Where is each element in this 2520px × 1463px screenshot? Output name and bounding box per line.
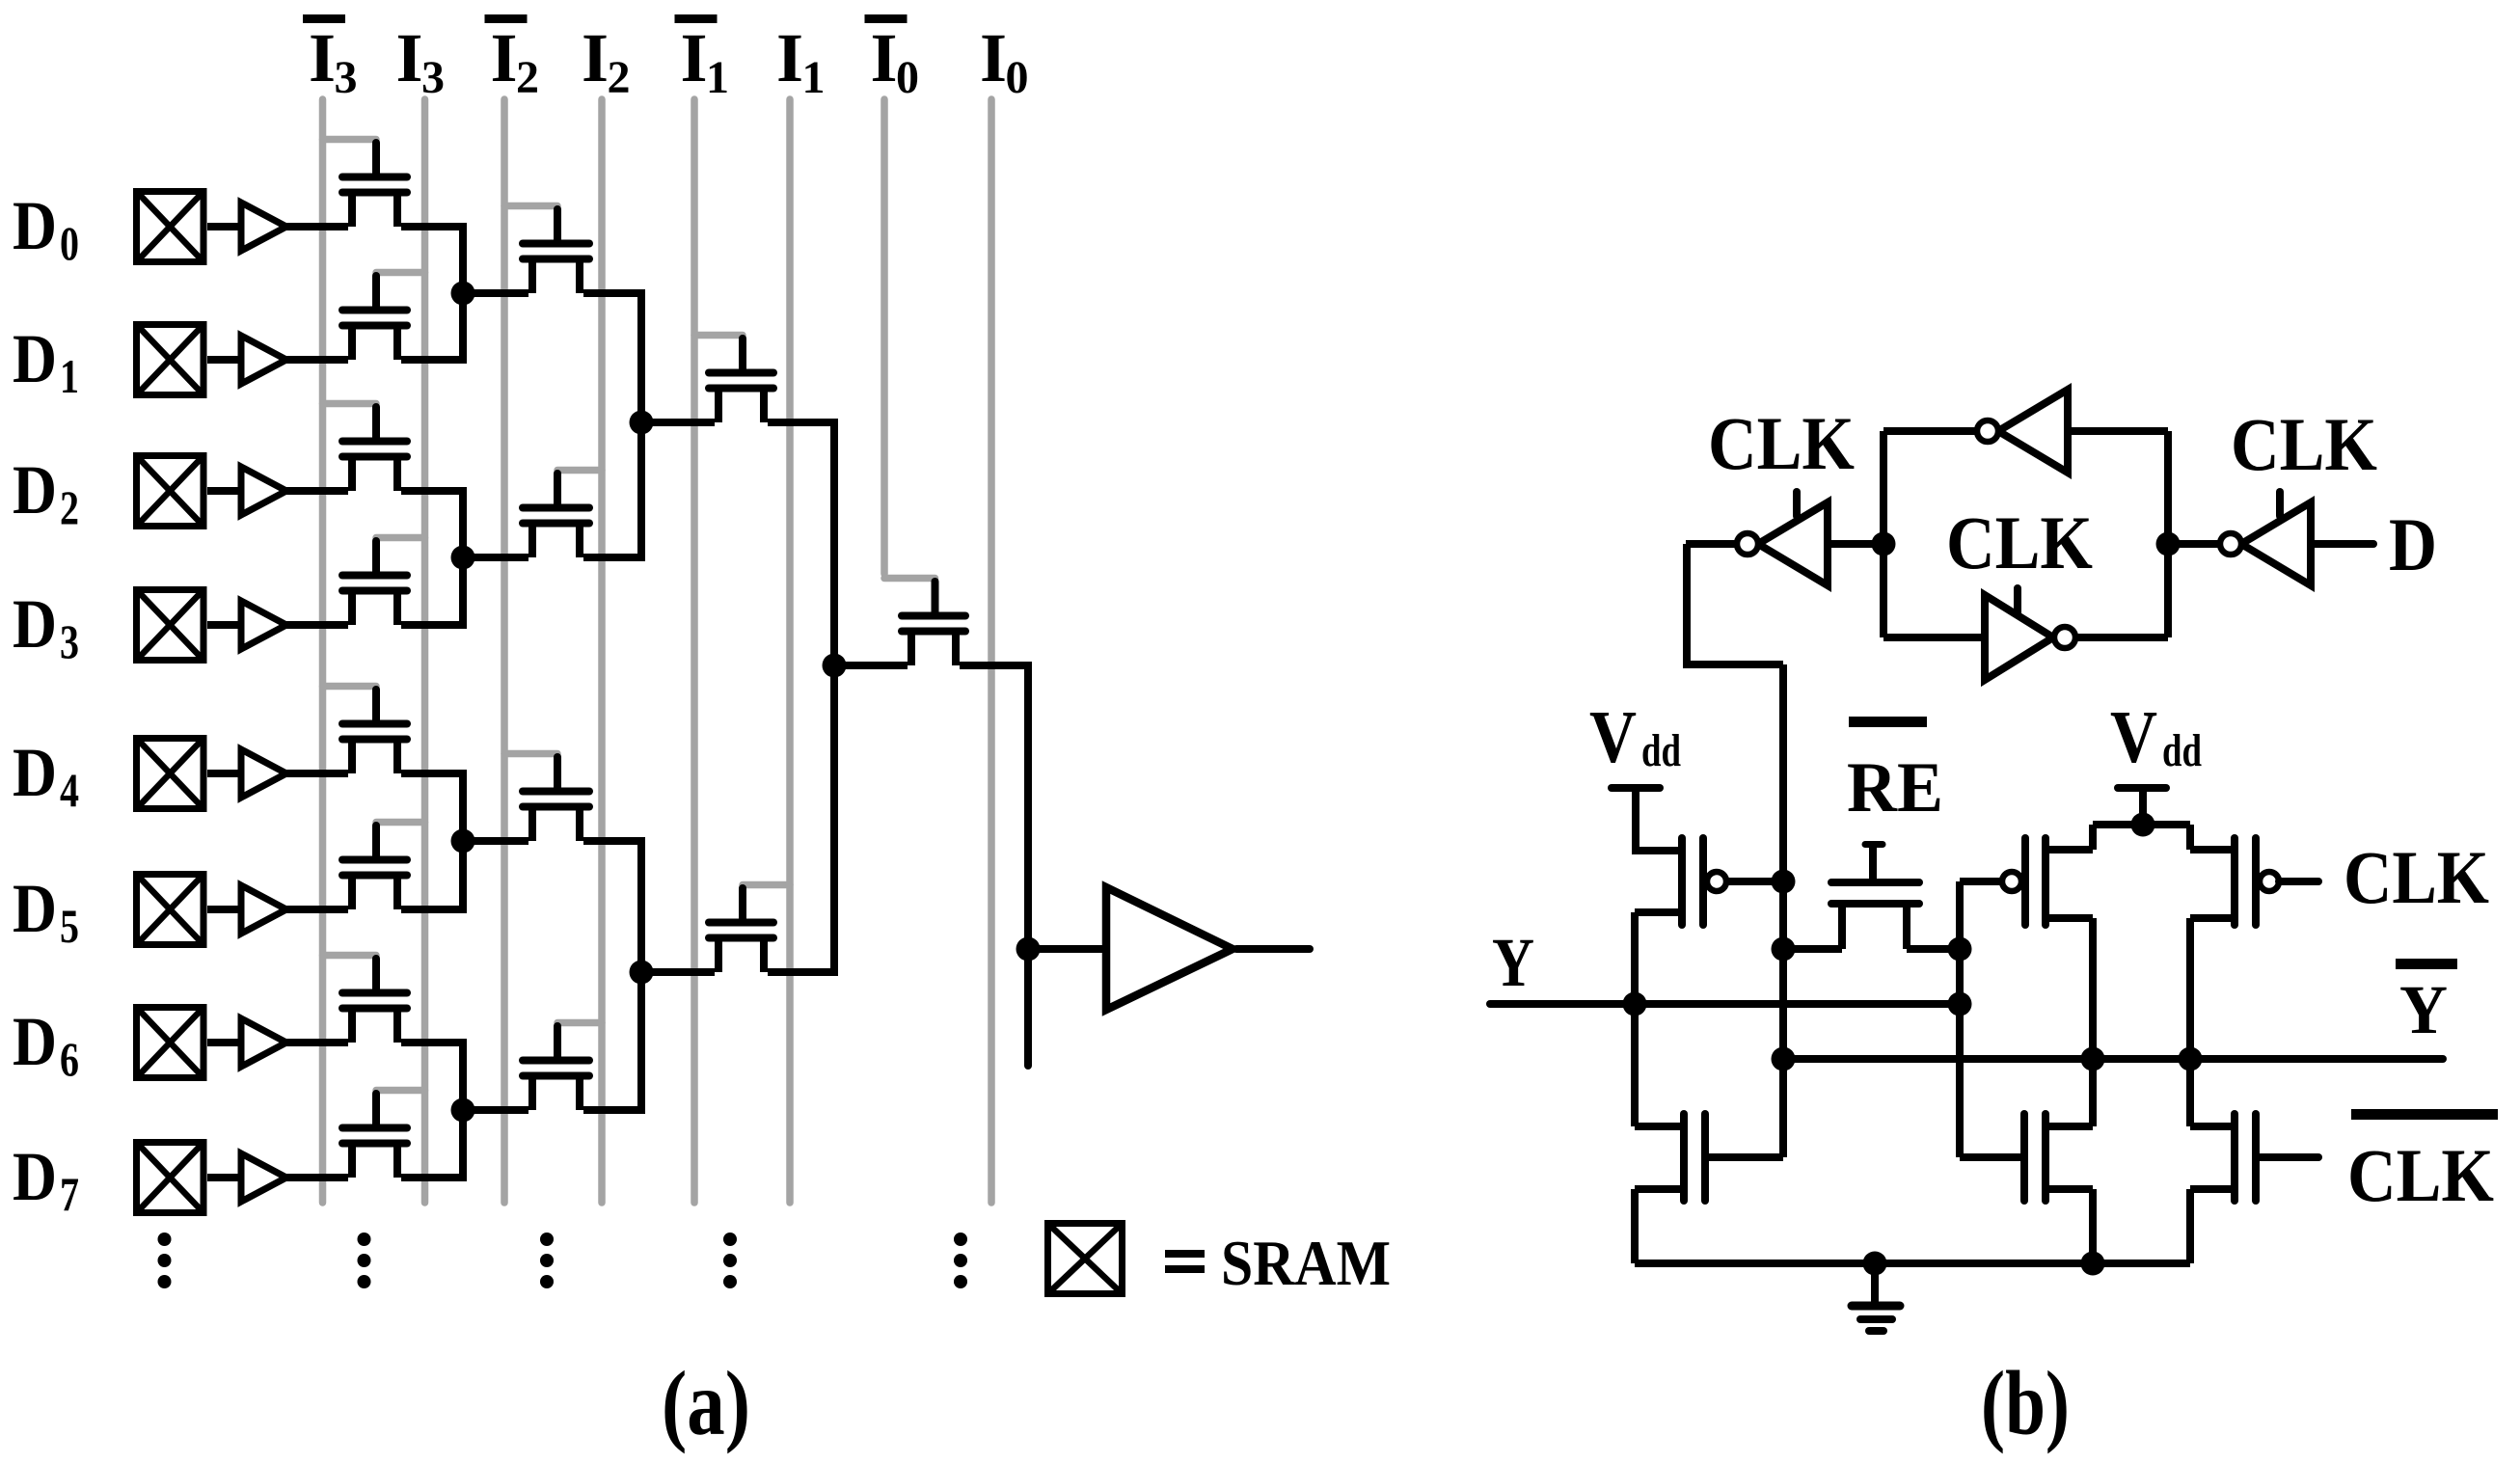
wire node B vertical	[1956, 881, 1964, 1157]
select line I3	[421, 99, 429, 1203]
wire loop bottom right	[2075, 634, 2168, 641]
select line I2_bar	[501, 99, 508, 1203]
ellipsis dots under level-1 column	[358, 1233, 371, 1288]
svg-text:D: D	[13, 320, 57, 397]
wire D5 buffer to transistor	[285, 906, 348, 913]
wire D0 drain	[401, 223, 467, 230]
buffer D4	[241, 749, 286, 798]
wire D3 buffer to transistor	[285, 621, 348, 629]
node A to RE junction	[1772, 937, 1796, 962]
ellipsis dots under level-3 column	[723, 1233, 737, 1288]
wire U3 output corner down	[1683, 544, 1691, 664]
wire L3 lower to final node	[830, 665, 838, 972]
wire pair1 node to L2 transistor	[463, 554, 528, 561]
wire D0 to pair node	[459, 227, 467, 293]
pass transistor Q30 (upper half, gate I1_bar)	[694, 336, 773, 423]
pass transistor Q22 (pair D4/D5, gate I2_bar)	[504, 754, 589, 842]
wire U3 input to node L	[1829, 540, 1883, 548]
node final junction	[823, 654, 847, 678]
pass transistor M2 (gate RE_bar)	[1831, 845, 1919, 950]
wire L2 pair2 to quad node	[637, 841, 645, 972]
label D0	[13, 187, 79, 270]
pass transistor Q20 (pair D0/D1, gate I2_bar)	[504, 206, 589, 294]
wire net Ybar	[1783, 1055, 2443, 1063]
wire M5 drain to Ybar	[2186, 918, 2194, 1059]
wire M7 source to rail	[2186, 1189, 2194, 1263]
wire Y to M3 source	[1631, 1004, 1639, 1126]
wire node L vertical	[1880, 431, 1887, 637]
svg-text:Y: Y	[1492, 924, 1534, 1001]
wire D4 cell to buffer	[207, 770, 241, 777]
wire loop bottom left	[1883, 634, 1985, 641]
wire tri-state output	[1686, 540, 1737, 548]
node A to M1 gate junction	[1772, 870, 1796, 894]
svg-text:4: 4	[60, 763, 79, 817]
wire loop top left	[1883, 427, 1977, 435]
label D6	[13, 1003, 79, 1086]
node pair0 junction	[451, 282, 475, 306]
wire M2 to node B	[1907, 945, 1960, 953]
pass transistor Q23 (pair D6/D7, gate I2)	[523, 1023, 602, 1111]
tri-state inverter U3 (CLK)	[1737, 492, 1828, 585]
wire node B to M4 gate bubble	[1960, 878, 2002, 885]
wire M3 drain to ground rail	[1631, 1189, 1639, 1263]
pass transistor Q14 (row D4, gate I3_bar)	[323, 687, 408, 774]
wire Vdd split	[2093, 821, 2190, 828]
wire pair3 node to L2 transistor	[463, 1106, 528, 1114]
svg-text:dd: dd	[2162, 725, 2202, 776]
label D5	[13, 870, 79, 953]
node Ybar-M5 junction	[2179, 1047, 2203, 1071]
wire net Y	[1490, 1000, 1960, 1008]
buffer D7	[241, 1153, 286, 1202]
svg-text:I: I	[396, 19, 423, 96]
wire final node to L4 transistor	[834, 662, 908, 669]
node Vdd split junction	[2131, 813, 2155, 837]
label I3_bar	[303, 14, 358, 103]
SRAM cell D2	[137, 456, 204, 527]
buffer D6	[241, 1018, 286, 1067]
node rail-M6 junction	[2081, 1252, 2105, 1276]
buffer D1	[241, 336, 286, 384]
wire node R to U4 bubble	[2168, 540, 2220, 548]
SRAM cell D6	[137, 1008, 204, 1078]
wire L2 pair1 to quad node	[637, 422, 645, 557]
label Vdd left	[1589, 695, 1681, 778]
svg-text:D: D	[13, 870, 57, 947]
wire L4 drain	[960, 662, 1032, 669]
svg-text:D: D	[13, 451, 57, 528]
wire Vdd to M4 source	[2089, 825, 2097, 850]
wire L2 pair0 to quad node	[637, 293, 645, 422]
wire D4 to pair node	[459, 773, 467, 841]
output buffer	[1106, 887, 1233, 1010]
node Ybar-M4 junction	[2081, 1047, 2105, 1071]
svg-text:I: I	[491, 19, 518, 96]
wire Vdd to M5 source	[2186, 825, 2194, 850]
svg-text:D: D	[13, 187, 57, 264]
node M1 drain on Y junction	[1623, 992, 1647, 1016]
ground	[1852, 1263, 1900, 1331]
node A to Ybar junction	[1772, 1047, 1796, 1071]
SRAM cell D0	[137, 192, 204, 262]
svg-text:D: D	[13, 1003, 57, 1080]
SRAM cell D7	[137, 1143, 204, 1213]
svg-text:3: 3	[421, 52, 445, 103]
wire U4 to D	[2315, 540, 2373, 548]
pass transistor Q17 (row D7, gate I3)	[342, 1091, 425, 1179]
Vdd terminal right	[2118, 788, 2166, 825]
pass transistor Q12 (row D2, gate I3_bar)	[323, 404, 408, 492]
pass transistor Q40 (output stage, gate I0_bar)	[884, 579, 965, 666]
svg-text:2: 2	[608, 52, 631, 103]
wire M1 drain to Y	[1631, 912, 1639, 1004]
NMOS M6 (gate node B)	[2024, 1114, 2093, 1201]
wire D1 drain	[401, 356, 467, 364]
buffer D5	[241, 885, 286, 934]
wire D5 cell to buffer	[207, 906, 241, 913]
PMOS M4 (gate node B)	[2002, 838, 2093, 925]
label RE_bar	[1847, 717, 1943, 827]
label D1	[13, 320, 79, 403]
svg-text:CLK: CLK	[2344, 835, 2489, 919]
node pair2 junction	[451, 829, 475, 853]
ellipsis dots under SRAM column	[158, 1233, 172, 1288]
svg-text:D: D	[2389, 502, 2437, 586]
wire D0 cell to buffer	[207, 223, 241, 230]
wire quad0 node to L3 transistor	[641, 419, 715, 426]
wire L2 pair2 drain	[583, 837, 645, 845]
svg-text:CLK: CLK	[2347, 1133, 2494, 1217]
svg-text:2: 2	[60, 480, 79, 534]
svg-text:I: I	[871, 19, 898, 96]
wire D6 cell to buffer	[207, 1039, 241, 1046]
buffer D0	[241, 203, 286, 251]
wire D1 buffer to transistor	[285, 356, 348, 364]
node R junction	[2156, 532, 2181, 556]
svg-text:3: 3	[60, 614, 79, 668]
legend SRAM symbol box	[1048, 1224, 1123, 1294]
wire output node to buffer	[1028, 945, 1106, 953]
label I1	[776, 19, 826, 103]
wire D3 to pair node	[459, 557, 467, 625]
pass transistor Q15 (row D5, gate I3)	[342, 823, 425, 910]
svg-text:CLK: CLK	[1946, 501, 2093, 584]
label D2	[13, 451, 79, 534]
inverter U1 feedback top	[1977, 390, 2068, 473]
inverter U2 feedback bottom (clocked)	[1985, 588, 2075, 680]
svg-text:7: 7	[60, 1167, 79, 1221]
svg-text:RE: RE	[1847, 748, 1943, 827]
wire Ybar to M7 drain	[2186, 1059, 2194, 1126]
SRAM cell D4	[137, 739, 204, 809]
svg-text:D: D	[13, 1138, 57, 1215]
wire D5 to pair node	[459, 841, 467, 909]
wire node R vertical	[2164, 431, 2172, 637]
wire L3 upper drain	[768, 419, 838, 426]
wire node B to M6 gate	[1960, 1153, 2020, 1161]
svg-text:I: I	[582, 19, 609, 96]
wire L2 pair3 to quad node	[637, 972, 645, 1110]
wire pair0 node to L2 transistor	[463, 289, 528, 297]
wire D0 buffer to transistor	[285, 223, 348, 230]
svg-text:0: 0	[1006, 52, 1029, 103]
PMOS M5 (gate CLK)	[2190, 838, 2318, 925]
svg-text:Y: Y	[2399, 971, 2448, 1048]
wire pair2 node to L2 transistor	[463, 837, 528, 845]
wire D6 drain	[401, 1039, 467, 1046]
ellipsis dots under level-2 column	[540, 1233, 554, 1288]
label I3	[396, 19, 446, 103]
svg-text:6: 6	[60, 1032, 79, 1086]
NMOS M7 (gate CLK_bar)	[2190, 1114, 2318, 1201]
wire L3 lower drain	[768, 968, 838, 976]
wire D2 buffer to transistor	[285, 487, 348, 495]
wire D7 cell to buffer	[207, 1174, 241, 1181]
node pair1 junction	[451, 546, 475, 570]
Vdd terminal left	[1612, 788, 1660, 854]
buffer D2	[241, 467, 286, 515]
svg-text:0: 0	[60, 216, 79, 270]
label I2	[582, 19, 631, 103]
label I1_bar	[675, 14, 730, 103]
wire quad1 node to L3 transistor	[641, 968, 715, 976]
wire L2 pair0 drain	[583, 289, 645, 297]
wire D7 drain	[401, 1174, 467, 1181]
svg-text:0: 0	[896, 52, 919, 103]
svg-text:V: V	[2110, 695, 2157, 778]
svg-text:D: D	[13, 734, 57, 811]
label D3	[13, 585, 79, 668]
select line I1	[786, 99, 794, 1203]
node B on Y junction	[1948, 992, 1972, 1016]
svg-text:I: I	[681, 19, 708, 96]
svg-text:V: V	[1589, 695, 1637, 778]
wire node A vertical	[1779, 664, 1787, 1157]
wire L4 to output node	[1024, 669, 1032, 1066]
label I2_bar	[485, 14, 540, 103]
svg-text:dd: dd	[1641, 725, 1681, 776]
wire D6 buffer to transistor	[285, 1039, 348, 1046]
input inverter U4 (CLK)	[2220, 492, 2311, 585]
select line I2	[598, 99, 606, 1203]
wire node A horizontal	[1683, 661, 1783, 668]
wire D3 drain	[401, 621, 467, 629]
svg-text:1: 1	[802, 52, 826, 103]
wire L2 pair1 drain	[583, 554, 645, 561]
svg-text:CLK: CLK	[2231, 402, 2377, 486]
pass transistor Q13 (row D3, gate I3)	[342, 538, 425, 626]
label CLK_bar	[2347, 1109, 2498, 1217]
wire L2 pair3 drain	[583, 1106, 645, 1114]
label D7	[13, 1138, 79, 1221]
label D4	[13, 734, 79, 817]
label Vdd right	[2110, 695, 2202, 778]
svg-text:5: 5	[60, 899, 79, 953]
pass transistor Q11 (row D1, gate I3)	[342, 273, 425, 361]
wire D3 cell to buffer	[207, 621, 241, 629]
wire D7 to pair node	[459, 1110, 467, 1178]
select line I3_bar	[319, 99, 327, 1203]
wire ground rail	[1635, 1260, 2190, 1267]
svg-text:D: D	[13, 585, 57, 663]
svg-text:(a): (a)	[662, 1352, 750, 1454]
legend equals sign	[1165, 1250, 1205, 1273]
wire D1 to pair node	[459, 293, 467, 360]
NMOS M3 (pull-down, gate Ybar)	[1635, 1114, 1783, 1201]
svg-text:1: 1	[60, 349, 79, 403]
wire D1 cell to buffer	[207, 356, 241, 364]
svg-text:1: 1	[706, 52, 729, 103]
ellipsis dots under level-4 column	[954, 1233, 967, 1288]
pass transistor Q31 (lower half, gate I1)	[709, 885, 790, 973]
wire node A to M2	[1783, 945, 1842, 953]
svg-text:CLK: CLK	[1708, 401, 1855, 485]
buffer D3	[241, 601, 286, 649]
wire D4 buffer to transistor	[285, 770, 348, 777]
wire M4 drain to Ybar	[2089, 918, 2097, 1059]
svg-text:I: I	[309, 19, 336, 96]
wire M6 source to rail	[2089, 1189, 2097, 1263]
node quad1 junction	[630, 961, 654, 985]
wire Ybar to M6 drain	[2089, 1059, 2097, 1126]
pass transistor Q21 (pair D2/D3, gate I2)	[523, 471, 602, 558]
wire D2 cell to buffer	[207, 487, 241, 495]
node B junction	[1948, 937, 1972, 962]
node ground junction	[1863, 1252, 1887, 1276]
wire D4 drain	[401, 770, 467, 777]
pass transistor Q10 (row D0, gate I3_bar)	[323, 140, 408, 228]
svg-text:(b): (b)	[1981, 1352, 2070, 1454]
wire D2 to pair node	[459, 491, 467, 557]
pass transistor Q16 (row D6, gate I3_bar)	[323, 956, 408, 1043]
svg-text:I: I	[776, 19, 803, 96]
select line I1_bar	[691, 99, 698, 1203]
PMOS M1 (keeper, source Vdd)	[1635, 838, 1783, 925]
label Ybar	[2396, 959, 2457, 1048]
wire D7 buffer to transistor	[285, 1174, 348, 1181]
svg-text:2: 2	[516, 52, 539, 103]
svg-text:I: I	[980, 19, 1007, 96]
label I0	[980, 19, 1029, 103]
select line I0_bar	[881, 99, 888, 574]
wire L3 upper to final node	[830, 422, 838, 665]
SRAM cell D3	[137, 590, 204, 661]
wire D6 to pair node	[459, 1043, 467, 1110]
SRAM cell D5	[137, 875, 204, 945]
wire D5 drain	[401, 906, 467, 913]
node quad0 junction	[630, 411, 654, 435]
node L junction	[1872, 532, 1896, 556]
svg-text:3: 3	[335, 52, 358, 103]
wire D2 drain	[401, 487, 467, 495]
label I0_bar	[865, 14, 920, 103]
select line I0	[988, 99, 995, 1203]
SRAM cell D1	[137, 325, 204, 395]
wire output	[1236, 945, 1310, 953]
node pair3 junction	[451, 1098, 475, 1123]
wire loop top right	[2068, 427, 2168, 435]
svg-text:SRAM: SRAM	[1221, 1228, 1391, 1299]
node output junction	[1016, 937, 1041, 962]
